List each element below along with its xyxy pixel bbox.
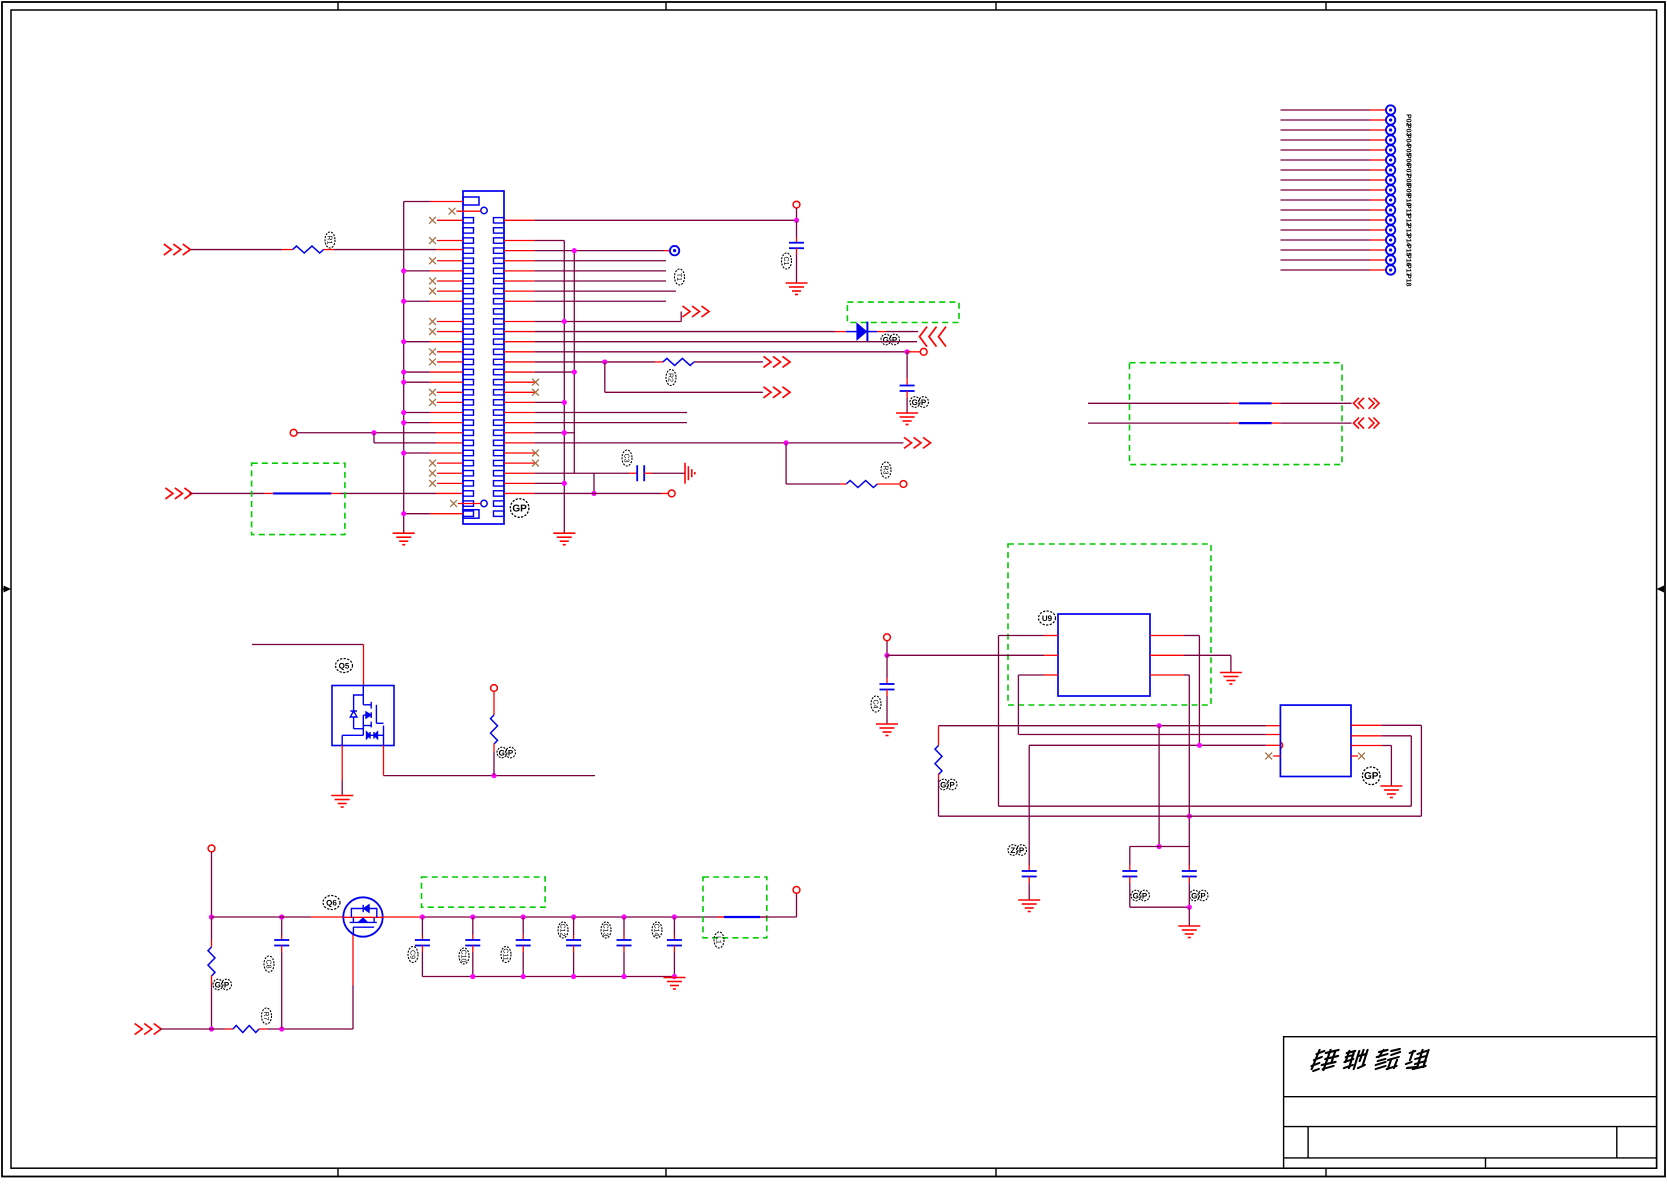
junction VPWR bbox=[209, 914, 214, 919]
node open circle VCC3 bbox=[793, 201, 800, 208]
wire Q5 gate down bbox=[383, 746, 385, 776]
wire VIN to U9 pin2 bbox=[887, 654, 1044, 656]
svg-text:P18: P18 bbox=[1405, 274, 1412, 287]
capacitor C6 bbox=[1122, 871, 1137, 877]
junction GND bus row 17 bbox=[401, 380, 406, 385]
wire C11 top bbox=[522, 917, 524, 935]
ground C2 bbox=[896, 413, 918, 425]
testpoint TP13 bbox=[1386, 215, 1395, 224]
wire net J branch down bbox=[785, 443, 787, 484]
wire loop left to C6 bbox=[1129, 847, 1131, 866]
border zone tick top x=1326 bbox=[1325, 2, 1327, 10]
wire testpoint TP16 net bbox=[1281, 249, 1371, 251]
capacitor C7 bbox=[1182, 871, 1197, 877]
label G/P net E bbox=[881, 334, 900, 345]
junction bus1 row27 bbox=[562, 481, 567, 486]
border center arrow left bbox=[2, 586, 11, 593]
junction pin4 net at line E bbox=[1187, 814, 1192, 819]
wire loop right to C7 bbox=[1188, 847, 1190, 866]
svg-text:C13: C13 bbox=[602, 924, 609, 937]
no-connect x J1 bottom index pin bbox=[450, 500, 457, 507]
wire J1 row19 to bus1 bbox=[504, 401, 535, 403]
no-connect x J1 left pin row 25 bbox=[429, 460, 436, 467]
wire R4 to line E bbox=[938, 774, 940, 780]
wire J1 row20 stub bbox=[504, 412, 535, 414]
connector J1 top index circle bbox=[481, 207, 487, 213]
chassis ground net K bbox=[685, 463, 695, 484]
junction GND bus row 20 bbox=[401, 410, 406, 415]
callout box diode net bbox=[847, 302, 959, 322]
wire U9 pin4 dropper bbox=[1150, 674, 1184, 676]
wire U10 out2 to line D bbox=[1351, 735, 1381, 737]
wire U10 out1 to line E bbox=[1351, 724, 1381, 726]
junction cap ground bus bbox=[521, 974, 526, 979]
wire C14 top bbox=[673, 917, 675, 935]
svg-text:R1: R1 bbox=[326, 236, 333, 245]
wire FB1 to J1 bbox=[331, 492, 340, 494]
testpoint TP3 bbox=[1386, 115, 1395, 124]
wire testpoint TP18 net bbox=[1281, 269, 1371, 271]
wire output riser bbox=[796, 893, 798, 917]
wire testpoint TP13 net bbox=[1281, 219, 1371, 221]
testpoint TP7 bbox=[1386, 155, 1395, 164]
capacitor C5 bbox=[1022, 871, 1037, 877]
label C9 bbox=[408, 947, 418, 963]
junction GND bus row 16 bbox=[401, 369, 406, 374]
wire J1 row21 stub bbox=[504, 422, 535, 424]
node open circle net G bbox=[920, 348, 927, 355]
resistor R3 bbox=[846, 481, 877, 488]
callout box bead L1 bbox=[703, 877, 767, 938]
wire line C (U9 pin6 to U10 in3) bbox=[1029, 744, 1266, 746]
capacitor C13 bbox=[617, 940, 632, 946]
wire testpoint TP5 net bbox=[1281, 139, 1371, 141]
svg-text:C8: C8 bbox=[265, 960, 272, 969]
label GP connector J1 bbox=[510, 499, 529, 518]
ferrite bead FB2 bbox=[1239, 402, 1272, 404]
wire left GND bus of J1 bbox=[403, 202, 405, 534]
no-connect x U10 out4 bbox=[1351, 755, 1358, 757]
wire C5 to ground bbox=[1028, 877, 1030, 884]
wire R5 bottom bbox=[493, 744, 495, 753]
connector node open circle net B bbox=[290, 429, 297, 436]
no-connect x J1 left pin row 12 bbox=[429, 328, 436, 335]
callout box bidirectional nets bbox=[1130, 363, 1343, 465]
IC U9 body bbox=[1058, 614, 1150, 696]
svg-text:C14: C14 bbox=[653, 924, 660, 937]
wire J1 left pin row 16 to GND bus bbox=[404, 371, 430, 373]
wire line E (R4 to U10 out1) bbox=[939, 815, 1422, 817]
wire bead FB3 to port bbox=[1272, 422, 1281, 424]
wire J1 left pin row 13 to GND bus bbox=[404, 341, 430, 343]
wire enable net bbox=[160, 1028, 225, 1030]
port arrows net E/F (big chevrons) bbox=[920, 327, 947, 347]
wire U9 pin6 net bbox=[1150, 635, 1184, 637]
wire C10 bottom bbox=[472, 946, 474, 953]
junction GND bus row 13 bbox=[401, 339, 406, 344]
wire J1 row11 to port D bbox=[504, 320, 535, 322]
svg-text:G: G bbox=[1133, 891, 1139, 900]
border center arrow right bbox=[1657, 586, 1665, 593]
testpoint TP11 bbox=[1386, 195, 1395, 204]
wire testpoint TP17 net bbox=[1281, 259, 1371, 261]
svg-text:R2: R2 bbox=[667, 373, 674, 382]
wire Q5 drain drop bbox=[363, 645, 365, 686]
testpoint TP1 bbox=[670, 246, 679, 255]
ground C1 bbox=[786, 283, 808, 295]
ground U10 out3 bbox=[1380, 786, 1402, 798]
wire diode net E from J1 bbox=[504, 331, 535, 333]
ferrite bead FB3 bbox=[1239, 422, 1272, 424]
no-connect x J1 left pin row 15 bbox=[429, 359, 436, 366]
wire testpoint TP12 net bbox=[1281, 209, 1371, 211]
junction net G bbox=[905, 349, 910, 354]
svg-text:G: G bbox=[912, 398, 918, 407]
testpoint TP16 bbox=[1386, 245, 1395, 254]
svg-text:Q5: Q5 bbox=[339, 662, 350, 671]
junction rail C12 bbox=[571, 914, 576, 919]
callout box net C bbox=[252, 463, 345, 534]
wire net H branch to port I bbox=[604, 362, 606, 392]
capacitor C8 bbox=[274, 940, 289, 946]
ground C4 bbox=[876, 724, 898, 736]
wire Q5 drain net bbox=[252, 644, 364, 646]
wire net K riser to net L bbox=[593, 473, 595, 493]
testpoint TP2 bbox=[1386, 105, 1395, 114]
svg-text:R7: R7 bbox=[262, 1012, 269, 1021]
wire R6 to bottom rail bbox=[211, 976, 213, 986]
connector J1 bottom index circle bbox=[481, 500, 487, 506]
label Z/P C5 bbox=[1008, 845, 1027, 856]
svg-text:G: G bbox=[940, 780, 946, 789]
wire U9 pin3 riser bbox=[1017, 675, 1019, 735]
svg-text:C4: C4 bbox=[872, 700, 879, 709]
capacitor C11 bbox=[516, 940, 531, 946]
title block company logo text bbox=[1310, 1049, 1429, 1071]
capacitor C10 bbox=[465, 940, 480, 946]
wire U9 pin6 dropper bbox=[1198, 636, 1200, 746]
wire net J from J1 long bbox=[504, 442, 535, 444]
wire J1 left pin row 20 to GND bus bbox=[404, 412, 430, 414]
wire testpoint TP7 net bbox=[1281, 159, 1371, 161]
wire main rail to Q6 bbox=[212, 916, 312, 918]
wire loop to ground bbox=[1188, 907, 1190, 926]
wire Q5 source to ground bbox=[341, 746, 343, 781]
no-connect x J1 right row24 bbox=[504, 452, 535, 454]
wire J1 left pin row 24 to GND bus bbox=[404, 452, 430, 454]
resistor R6 bbox=[208, 947, 215, 976]
border zone tick top x=996 bbox=[995, 2, 997, 10]
junction cap ground bus bbox=[621, 974, 626, 979]
wire testpoint TP3 net bbox=[1281, 119, 1371, 121]
resistor R2 bbox=[663, 358, 694, 365]
port arrows output net D bbox=[683, 306, 710, 317]
border zone tick bottom x=666 bbox=[665, 1168, 667, 1176]
junction GND bus row 9 bbox=[401, 299, 406, 304]
wire net G from J1 bbox=[504, 351, 535, 353]
wire VCC3 pullup bbox=[796, 208, 798, 220]
port arrows net H bbox=[764, 356, 791, 367]
testpoint TP8 bbox=[1386, 165, 1395, 174]
wire testpoint TP6 net bbox=[1281, 149, 1371, 151]
ferrite bead L1 bbox=[718, 916, 725, 918]
wire input net C bbox=[189, 492, 264, 494]
IC U10 body bbox=[1280, 705, 1351, 776]
wire U9 pin1 net bbox=[999, 635, 1045, 637]
junction GND bus row 30 bbox=[401, 511, 406, 516]
node open circle output bbox=[793, 887, 800, 894]
label GP U10 bbox=[1362, 767, 1380, 785]
testpoint TP14 bbox=[1386, 225, 1395, 234]
port arrows enable net bbox=[135, 1024, 162, 1035]
wire net K from J1 bbox=[504, 472, 535, 474]
capacitor C4 bbox=[880, 684, 895, 690]
junction VIN bbox=[884, 653, 889, 658]
wire testpoint TP8 net bbox=[1281, 169, 1371, 171]
junction GND bus row 24 bbox=[401, 450, 406, 455]
wire line B (U9 pin3 to U10 in2) bbox=[1018, 734, 1266, 736]
ground bypass loop bbox=[1178, 926, 1200, 938]
wire right bus2 bbox=[573, 251, 575, 474]
callout box output net name bbox=[422, 877, 546, 907]
svg-text:C1: C1 bbox=[782, 257, 789, 266]
wire testpoint TP11 net bbox=[1281, 199, 1371, 201]
transistor pack Q5 internals bbox=[342, 686, 383, 746]
wire C6 to bottom bus bbox=[1129, 877, 1131, 884]
wire input net A bbox=[191, 249, 283, 251]
wire C12 bottom bbox=[573, 946, 575, 953]
svg-text:P: P bbox=[921, 398, 927, 407]
wire bidir net 2 bbox=[1088, 422, 1230, 424]
wire U9 pin3 net bbox=[1018, 674, 1044, 676]
svg-text:T1: T1 bbox=[675, 273, 682, 281]
junction gate node C8 bbox=[279, 1026, 284, 1031]
wire C10 top bbox=[472, 917, 474, 935]
ground right bus1 bbox=[553, 533, 575, 545]
svg-text:Q6: Q6 bbox=[326, 899, 337, 908]
ground Q5 bbox=[331, 796, 353, 808]
wire port D riser bbox=[680, 312, 682, 322]
resistor R7 bbox=[233, 1026, 259, 1033]
junction net B branch bbox=[371, 430, 376, 435]
diode D1 bbox=[846, 322, 877, 342]
wire R1 to J1 pin bbox=[324, 249, 334, 251]
no-connect x J1 right row17 bbox=[504, 381, 535, 383]
no-connect x J1 right row18 bbox=[504, 391, 535, 393]
label TP1 bbox=[675, 269, 685, 285]
ferrite bead FB1 bbox=[273, 492, 331, 494]
no-connect x J1 left pin row 11 bbox=[429, 318, 436, 325]
testpoint TP6 bbox=[1386, 145, 1395, 154]
no-connect x J1 top index pin bbox=[449, 208, 456, 215]
svg-text:U9: U9 bbox=[1042, 614, 1053, 623]
ground U9 pin5 bbox=[1220, 673, 1242, 685]
resistor R1 bbox=[293, 246, 324, 253]
wire bidir net 1 bbox=[1088, 402, 1230, 404]
junction line C bbox=[1197, 743, 1202, 748]
svg-text:P: P bbox=[1200, 891, 1206, 900]
wire bypass loop top bbox=[1130, 846, 1190, 848]
label C14 bbox=[652, 922, 662, 938]
wire testpoint TP14 net bbox=[1281, 229, 1371, 231]
wire bead FB2 to port bbox=[1272, 402, 1281, 404]
wire R5 top bbox=[493, 691, 495, 715]
svg-text:P: P bbox=[508, 748, 514, 757]
wire VIN to C4 bbox=[886, 655, 888, 678]
wire R3 to open circle bbox=[877, 483, 899, 485]
junction loop bottom bbox=[1187, 905, 1192, 910]
transistor Q6 (power PFET) bbox=[343, 897, 382, 936]
svg-text:G: G bbox=[499, 748, 505, 757]
testpoint TP10 bbox=[1386, 185, 1395, 194]
title block frame bbox=[1284, 1037, 1657, 1169]
connector J1 top key notch bbox=[463, 197, 479, 205]
callout box U9 section bbox=[1008, 544, 1211, 705]
wire U10 out3 to ground bbox=[1351, 745, 1382, 747]
no-connect x J1 left pin row 18 bbox=[429, 389, 436, 396]
wire VPWR drop bbox=[211, 852, 213, 917]
wire capacitor ground bus bbox=[422, 976, 674, 978]
svg-text:P: P bbox=[1019, 846, 1025, 855]
svg-text:Z: Z bbox=[1010, 846, 1015, 855]
testpoint TP5 bbox=[1386, 135, 1395, 144]
svg-text:C3: C3 bbox=[623, 454, 630, 463]
wire bus to J1 key notch pin bbox=[404, 201, 430, 203]
testpoint TP18 bbox=[1386, 265, 1395, 274]
label C8 bbox=[264, 956, 274, 972]
svg-text:C11: C11 bbox=[502, 948, 509, 960]
junction rail C11 bbox=[521, 914, 526, 919]
wire net H from J1 through R2 bbox=[504, 361, 535, 363]
capacitor C3 bbox=[637, 465, 644, 481]
wire net F from J1 bbox=[504, 341, 535, 343]
wire J1 right pin row 6 stub net bbox=[504, 270, 535, 272]
port arrows input net C (bottom left) bbox=[165, 488, 192, 499]
port arrows input net A (top left) bbox=[164, 244, 191, 255]
wire line C to C5 bbox=[1028, 745, 1030, 865]
wire J1 left pin row 9 to GND bus bbox=[404, 300, 430, 302]
junction net L bbox=[591, 491, 596, 496]
no-connect x J1 left pin row 27 bbox=[429, 480, 436, 487]
wire testpoint TP9 net bbox=[1281, 179, 1371, 181]
wire net G to open circle bbox=[907, 351, 920, 353]
wire C8 bottom bbox=[281, 946, 283, 953]
wire testpoint TP4 net bbox=[1281, 129, 1371, 131]
junction gate net bbox=[491, 773, 496, 778]
junction bus1 row22 bbox=[562, 430, 567, 435]
no-connect x J1 left pin row 7 bbox=[429, 278, 436, 285]
capacitor C12 bbox=[566, 940, 581, 946]
resistor R4 bbox=[938, 726, 940, 746]
junction cap ground bus bbox=[571, 974, 576, 979]
node open circle net L bbox=[668, 490, 675, 497]
wire C14 bottom bbox=[673, 946, 675, 953]
wire J1 left pin row 30 to GND bus bbox=[404, 513, 430, 515]
label C11 bbox=[501, 947, 511, 963]
wire testpoint TP15 net bbox=[1281, 239, 1371, 241]
wire C12 top bbox=[573, 917, 575, 935]
label G/P R4 bbox=[939, 779, 958, 790]
connector J1 pin contacts bbox=[463, 218, 504, 517]
ground capacitor bank bbox=[663, 978, 685, 990]
wire J1 row27 to bus1 bbox=[504, 482, 535, 484]
wire Q5 gate net bbox=[384, 775, 596, 777]
label C1 bbox=[782, 253, 792, 269]
border zone tick top x=338 bbox=[337, 2, 339, 10]
wire C7 to bottom bus bbox=[1188, 877, 1190, 884]
capacitor C8 top wire bbox=[281, 917, 283, 935]
wire line A (R4 top to U10 in1) bbox=[939, 725, 1267, 727]
svg-text:G: G bbox=[1191, 891, 1197, 900]
capacitor C14 bbox=[667, 940, 682, 946]
svg-text:G: G bbox=[883, 335, 889, 344]
port guillemets net 1 bbox=[1354, 398, 1380, 409]
wire testpoint TP10 net bbox=[1281, 189, 1371, 191]
border zone tick bottom x=338 bbox=[337, 1168, 339, 1176]
label R7 bbox=[262, 1008, 272, 1024]
junction cap ground bus bbox=[470, 974, 475, 979]
junction net J branch bbox=[784, 440, 789, 445]
junction line A to bypass loop bbox=[1157, 723, 1162, 728]
label C10 bbox=[459, 948, 469, 964]
port arrows net I bbox=[764, 387, 791, 398]
wire J1 right pin row 7 stub net bbox=[504, 280, 535, 282]
svg-text:P: P bbox=[1142, 891, 1148, 900]
wire J1 left pin row 6 to GND bus bbox=[404, 270, 430, 272]
junction bypass loop top bbox=[1157, 844, 1162, 849]
wire R2 to port H bbox=[694, 361, 763, 363]
label U9 bbox=[1039, 611, 1056, 625]
junction VCC3 bbox=[794, 218, 799, 223]
junction bottom rail R6 bbox=[209, 1026, 214, 1031]
label L1 bbox=[714, 932, 724, 948]
label G/P R5 bbox=[497, 747, 516, 758]
svg-text:R3: R3 bbox=[882, 466, 889, 475]
wire U9 pin1 riser bbox=[998, 636, 1000, 807]
transistor pack Q5 body bbox=[332, 686, 394, 746]
no-connect x J1 left pin row 5 bbox=[429, 257, 436, 264]
pin marker U10 in3 bbox=[1280, 742, 1282, 749]
wire R7 to gate node bbox=[259, 1028, 267, 1030]
node open circle VIN bbox=[884, 634, 891, 641]
wire C13 top bbox=[623, 917, 625, 935]
wire net B to J1 bbox=[297, 432, 436, 434]
svg-text:GP: GP bbox=[1364, 771, 1379, 782]
junction bus2 top bbox=[572, 248, 577, 253]
testpoint TP15 bbox=[1386, 235, 1395, 244]
testpoint TP4 bbox=[1386, 125, 1395, 134]
wire C9 bottom bbox=[421, 946, 423, 953]
wire C3 to chassis ground bbox=[644, 472, 652, 474]
wire C4 to ground bbox=[886, 690, 888, 697]
port guillemets net 2 bbox=[1354, 418, 1380, 429]
label G/P C6 bbox=[1131, 890, 1150, 901]
label C13 bbox=[601, 922, 611, 938]
connector J1 bottom key notch bbox=[463, 510, 479, 519]
wire J1 right pin row 5 stub net bbox=[504, 260, 535, 262]
wire loop bottom bus bbox=[1130, 906, 1190, 908]
wire C1 to ground bbox=[796, 248, 798, 254]
svg-text:L1: L1 bbox=[715, 936, 722, 944]
wire VPWR to R6 bbox=[211, 917, 213, 940]
wire J1 pin5 to testpoint TP1 bbox=[504, 250, 535, 252]
no-connect x J1 left pin row 8 bbox=[429, 288, 436, 295]
node open circle R5 top bbox=[491, 685, 498, 692]
no-connect x J1 left pin row 26 bbox=[429, 470, 436, 477]
label R2 bbox=[666, 370, 676, 386]
wire right GND bus1 bbox=[563, 241, 565, 534]
wire J1 pin1 net VCC3 bbox=[504, 219, 535, 221]
